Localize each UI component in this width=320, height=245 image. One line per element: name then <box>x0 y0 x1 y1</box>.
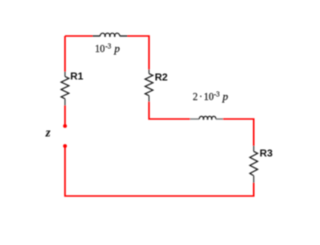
svg-text:z: z <box>45 126 51 140</box>
resistor R2 lead top <box>148 69 150 73</box>
inductor L2 lead left <box>190 118 199 120</box>
wire R2 bottom to middle corner <box>149 102 190 119</box>
resistor R1 <box>61 77 69 99</box>
svg-text:10-3p: 10-3p <box>95 43 120 56</box>
svg-text:R2: R2 <box>155 72 168 83</box>
inductor L2 <box>199 116 216 119</box>
resistor R3 <box>250 151 258 175</box>
wire top-left corner to R1 <box>64 36 66 72</box>
inductor L1 <box>100 33 120 36</box>
resistor R2 <box>145 74 153 96</box>
inductor L2 lead right <box>216 118 223 120</box>
resistor R1 lead top <box>64 72 66 77</box>
inductor L1 lead left <box>93 35 101 37</box>
inductor L1 lead right <box>120 35 128 37</box>
wire R3 bottom corner to bottom-left <box>65 146 254 196</box>
resistor R3 lead top <box>253 146 255 152</box>
svg-text:2·10-3p: 2·10-3p <box>193 91 229 104</box>
node z lower terminal <box>63 144 67 148</box>
wire R1 bottom to upper terminal <box>64 106 66 127</box>
resistor R2 lead bottom <box>148 96 150 102</box>
wire L2 to right corner down <box>223 119 254 146</box>
resistor R1 lead bottom <box>64 99 66 106</box>
resistor R3 lead bottom <box>253 176 255 183</box>
svg-text:R1: R1 <box>70 72 83 83</box>
node z upper terminal <box>63 124 67 128</box>
wire top-right corner down <box>128 36 150 69</box>
wire top from node to L1 <box>65 35 93 37</box>
svg-text:R3: R3 <box>260 149 273 160</box>
